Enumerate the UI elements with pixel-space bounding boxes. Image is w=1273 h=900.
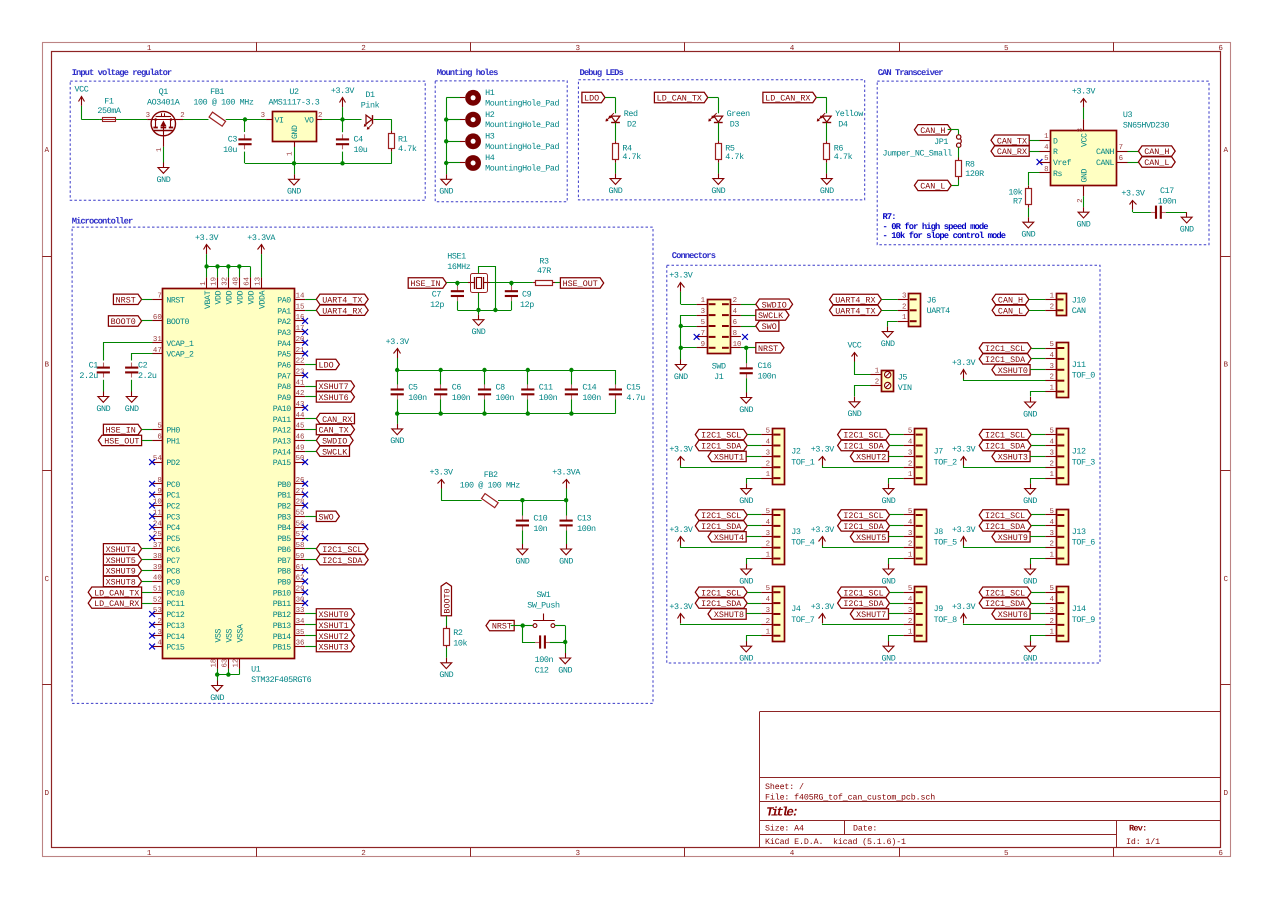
svg-text:3: 3 bbox=[908, 530, 912, 538]
svg-text:GND: GND bbox=[210, 693, 224, 703]
svg-text:SW1: SW1 bbox=[537, 590, 551, 600]
pin 34 PB13 bbox=[273, 618, 305, 631]
svg-text:F1: F1 bbox=[104, 97, 114, 107]
label I2C1_SCL bbox=[838, 510, 890, 521]
label SWO bbox=[316, 511, 339, 522]
svg-text:5: 5 bbox=[908, 508, 912, 516]
svg-text:Id: 1/1: Id: 1/1 bbox=[1126, 837, 1160, 847]
label CAN_L bbox=[992, 305, 1029, 316]
svg-text:+3.3V: +3.3V bbox=[669, 271, 693, 281]
svg-text:J13: J13 bbox=[1072, 527, 1086, 537]
pin 22 PA6 bbox=[277, 358, 305, 371]
svg-text:1: 1 bbox=[1049, 385, 1054, 393]
svg-text:TOF_6: TOF_6 bbox=[1072, 538, 1096, 548]
svg-text:J4: J4 bbox=[791, 604, 801, 614]
svg-text:PC6: PC6 bbox=[166, 546, 180, 555]
label HSE_OUT bbox=[560, 278, 603, 289]
wire bbox=[244, 120, 246, 133]
svg-text:VSSA: VSSA bbox=[237, 624, 246, 643]
svg-text:1: 1 bbox=[902, 314, 907, 322]
svg-text:GND: GND bbox=[287, 187, 301, 197]
wire bbox=[1029, 151, 1039, 153]
svg-text:LD_CAN_TX: LD_CAN_TX bbox=[657, 94, 702, 104]
pin 43 PA10 bbox=[273, 401, 305, 414]
label HSE_IN bbox=[103, 424, 141, 435]
svg-text:2: 2 bbox=[875, 379, 879, 387]
label HSE_OUT bbox=[98, 435, 141, 446]
svg-text:PB7: PB7 bbox=[277, 557, 291, 566]
svg-text:U2: U2 bbox=[289, 87, 299, 97]
svg-text:Microcontoller: Microcontoller bbox=[72, 216, 133, 226]
label I2C1_SDA bbox=[979, 598, 1031, 609]
svg-text:+3.3V: +3.3V bbox=[952, 358, 976, 368]
label I2C1_SDA bbox=[838, 521, 890, 532]
junction bbox=[340, 161, 344, 165]
wire bbox=[142, 440, 152, 442]
mounting hole H1 bbox=[460, 88, 559, 108]
ground bbox=[515, 544, 529, 566]
label BOOT0 bbox=[108, 316, 141, 327]
capacitor C9 bbox=[505, 283, 534, 310]
svg-text:4: 4 bbox=[908, 439, 913, 447]
label HSE_IN bbox=[408, 278, 446, 289]
svg-text:48: 48 bbox=[233, 277, 241, 286]
label UART4_TX bbox=[830, 305, 882, 316]
svg-text:10k: 10k bbox=[453, 638, 467, 648]
wire bbox=[747, 514, 761, 516]
wire bbox=[81, 106, 83, 120]
svg-text:3: 3 bbox=[766, 607, 770, 615]
wire bbox=[305, 516, 316, 518]
label XSHUT3 bbox=[316, 641, 354, 652]
wire bbox=[305, 451, 316, 453]
wire bbox=[555, 282, 560, 284]
svg-text:PC7: PC7 bbox=[166, 557, 180, 566]
wire bbox=[305, 559, 316, 561]
svg-text:22: 22 bbox=[296, 358, 305, 366]
wire bbox=[741, 347, 756, 349]
wire bbox=[1030, 456, 1045, 458]
no-connect PC5 bbox=[149, 535, 155, 541]
svg-text:PA15: PA15 bbox=[273, 459, 292, 468]
svg-text:PC2: PC2 bbox=[166, 503, 180, 512]
ground bbox=[156, 163, 170, 185]
svg-text:I2C1_SDA: I2C1_SDA bbox=[985, 599, 1026, 609]
label CAN_RX bbox=[316, 413, 354, 424]
svg-text:1: 1 bbox=[1049, 471, 1054, 479]
svg-text:8: 8 bbox=[157, 477, 161, 485]
wire bbox=[747, 434, 761, 436]
svg-text:+3.3VA: +3.3VA bbox=[552, 467, 581, 477]
svg-text:2: 2 bbox=[361, 44, 366, 53]
title block bbox=[760, 712, 1222, 848]
svg-text:5: 5 bbox=[766, 428, 770, 436]
svg-text:CANH: CANH bbox=[1096, 148, 1115, 157]
svg-text:NRST: NRST bbox=[492, 622, 512, 632]
resistor R4 bbox=[613, 141, 642, 163]
svg-text:64: 64 bbox=[243, 276, 251, 285]
svg-text:H1: H1 bbox=[485, 88, 495, 98]
mounting hole H2 bbox=[460, 110, 559, 130]
svg-text:XSHUT7: XSHUT7 bbox=[856, 610, 886, 620]
svg-text:PB1: PB1 bbox=[277, 492, 291, 501]
no-connect PB9 bbox=[302, 579, 308, 585]
connector J2 bbox=[761, 428, 815, 485]
svg-text:VDD: VDD bbox=[215, 290, 224, 304]
wire bbox=[708, 97, 719, 99]
no-connect PC2 bbox=[149, 503, 155, 509]
svg-text:5: 5 bbox=[1004, 850, 1009, 858]
svg-text:2: 2 bbox=[361, 849, 366, 858]
no-connect PC14 bbox=[149, 633, 155, 639]
svg-text:PB15: PB15 bbox=[273, 644, 292, 653]
wire bbox=[747, 559, 762, 565]
svg-text:J10: J10 bbox=[1072, 295, 1086, 305]
svg-text:2: 2 bbox=[1049, 460, 1053, 468]
svg-text:I2C1_SDA: I2C1_SDA bbox=[985, 355, 1026, 365]
wire bbox=[1030, 369, 1045, 371]
svg-text:1: 1 bbox=[908, 471, 913, 479]
power +3.3V bbox=[952, 358, 976, 379]
svg-text:SWDIO: SWDIO bbox=[322, 437, 347, 447]
capacitor C6 bbox=[434, 370, 470, 414]
svg-text:J5: J5 bbox=[898, 373, 908, 383]
svg-text:XSHUT8: XSHUT8 bbox=[106, 578, 136, 588]
svg-text:3: 3 bbox=[1049, 449, 1053, 457]
label BOOT0 bbox=[441, 583, 452, 616]
capacitor C12 bbox=[535, 635, 554, 675]
svg-text:4: 4 bbox=[766, 439, 771, 447]
power +3.3V bbox=[669, 525, 693, 546]
svg-text:2: 2 bbox=[766, 618, 770, 626]
pin 21 PA5 bbox=[277, 347, 305, 360]
pin 37 PC6 bbox=[152, 542, 180, 555]
svg-text:+3.3V: +3.3V bbox=[669, 525, 693, 535]
svg-text:100n: 100n bbox=[452, 393, 471, 403]
svg-text:100n: 100n bbox=[1158, 197, 1177, 207]
wire bbox=[566, 531, 568, 545]
label XSHUT0 bbox=[992, 365, 1030, 376]
svg-text:Q1: Q1 bbox=[159, 87, 169, 97]
resistor R8 bbox=[956, 158, 985, 180]
pin 61 PB8 bbox=[277, 564, 305, 577]
svg-text:2: 2 bbox=[908, 618, 912, 626]
svg-text:3: 3 bbox=[766, 449, 770, 457]
svg-text:I2C1_SCL: I2C1_SCL bbox=[701, 588, 741, 598]
svg-text:3: 3 bbox=[576, 44, 581, 53]
label I2C1_SDA bbox=[695, 598, 747, 609]
svg-text:3: 3 bbox=[1049, 363, 1053, 371]
svg-text:3: 3 bbox=[157, 629, 161, 637]
svg-text:C1: C1 bbox=[89, 360, 99, 370]
svg-text:1: 1 bbox=[766, 552, 771, 560]
wire bbox=[305, 299, 316, 301]
no-connect PC1 bbox=[149, 492, 155, 498]
svg-text:13: 13 bbox=[254, 277, 262, 286]
svg-text:40: 40 bbox=[153, 575, 162, 583]
svg-text:+3.3V: +3.3V bbox=[430, 467, 454, 477]
capacitor C11 bbox=[521, 370, 557, 414]
svg-text:6: 6 bbox=[1218, 44, 1223, 53]
svg-text:GND: GND bbox=[1081, 168, 1090, 182]
wire bbox=[305, 624, 316, 626]
wire bbox=[1031, 358, 1045, 360]
wire bbox=[747, 525, 761, 527]
svg-text:PB11: PB11 bbox=[273, 600, 292, 609]
no-connect Vref bbox=[1037, 159, 1043, 165]
no-connect PC12 bbox=[149, 611, 155, 617]
svg-text:PC14: PC14 bbox=[166, 633, 185, 642]
capacitor C8 bbox=[478, 370, 514, 414]
pin 19 VDD bbox=[211, 277, 224, 305]
pin 64 VDD bbox=[243, 276, 256, 304]
svg-text:C: C bbox=[1224, 575, 1229, 584]
power +3.3VA bbox=[552, 467, 581, 488]
svg-text:H4: H4 bbox=[485, 153, 495, 163]
svg-text:B: B bbox=[1224, 362, 1229, 370]
svg-text:Red: Red bbox=[624, 109, 638, 119]
junction bbox=[744, 346, 748, 350]
svg-text:AO3401A: AO3401A bbox=[147, 98, 181, 108]
wire bbox=[890, 445, 904, 447]
svg-text:UART4_RX: UART4_RX bbox=[322, 306, 362, 316]
svg-text:J7: J7 bbox=[934, 446, 944, 456]
svg-text:PB10: PB10 bbox=[273, 589, 292, 598]
svg-text:+3.3V: +3.3V bbox=[952, 444, 976, 454]
svg-text:PC0: PC0 bbox=[166, 481, 180, 490]
svg-text:100n: 100n bbox=[408, 393, 427, 403]
svg-text:PB4: PB4 bbox=[277, 524, 291, 533]
svg-text:D3: D3 bbox=[730, 120, 740, 130]
wire bbox=[890, 514, 904, 516]
svg-text:PB6: PB6 bbox=[277, 546, 291, 555]
svg-text:I2C1_SCL: I2C1_SCL bbox=[843, 431, 883, 441]
svg-text:UART4_TX: UART4_TX bbox=[322, 295, 362, 305]
wire bbox=[131, 380, 133, 392]
svg-text:C7: C7 bbox=[432, 290, 442, 300]
wire bbox=[1031, 592, 1045, 594]
wire bbox=[305, 613, 316, 615]
pin 40 PC9 bbox=[152, 575, 180, 588]
svg-text:VO: VO bbox=[304, 117, 314, 126]
svg-text:5: 5 bbox=[766, 585, 770, 593]
svg-text:XSHUT4: XSHUT4 bbox=[106, 545, 136, 555]
svg-text:SWO: SWO bbox=[319, 512, 334, 522]
svg-text:CAN_RX: CAN_RX bbox=[997, 147, 1027, 157]
wire bbox=[890, 434, 904, 436]
svg-text:10n: 10n bbox=[533, 524, 547, 534]
ground bbox=[882, 564, 896, 586]
wire bbox=[681, 546, 762, 548]
svg-text:+3.3V: +3.3V bbox=[195, 233, 219, 243]
pin 10 PC2 bbox=[152, 499, 180, 512]
svg-text:15: 15 bbox=[296, 303, 305, 311]
svg-text:BOOT0: BOOT0 bbox=[166, 318, 189, 327]
pin 59 PB7 bbox=[277, 553, 305, 566]
svg-text:Debug LEDs: Debug LEDs bbox=[580, 68, 624, 78]
label XSHUT1 bbox=[316, 620, 354, 631]
svg-text:12p: 12p bbox=[430, 300, 444, 310]
power +3.3V bbox=[331, 86, 355, 107]
pin 14 PA0 bbox=[277, 293, 305, 306]
svg-text:D4: D4 bbox=[838, 120, 848, 130]
svg-text:D2: D2 bbox=[627, 120, 637, 130]
pin 62 PB9 bbox=[277, 575, 305, 588]
svg-text:+3.3V: +3.3V bbox=[811, 602, 835, 612]
svg-text:2: 2 bbox=[766, 541, 770, 549]
svg-text:46: 46 bbox=[296, 434, 305, 442]
wire bbox=[1031, 514, 1045, 516]
capacitor C13 bbox=[560, 500, 596, 534]
connector J4 bbox=[761, 585, 815, 641]
svg-text:R1: R1 bbox=[398, 135, 408, 145]
svg-text:STM32F405RGT6: STM32F405RGT6 bbox=[251, 675, 312, 685]
svg-text:2: 2 bbox=[318, 112, 322, 120]
label XSHUT2 bbox=[850, 451, 888, 462]
crystal HSE1 bbox=[447, 251, 489, 292]
no-connect PB0 bbox=[302, 481, 308, 487]
svg-text:C14: C14 bbox=[582, 383, 596, 393]
label XSHUT9 bbox=[103, 565, 141, 576]
pin 26 PB0 bbox=[277, 477, 305, 490]
svg-text:1: 1 bbox=[1049, 552, 1054, 560]
capacitor C7 bbox=[430, 283, 464, 310]
label XSHUT6 bbox=[316, 392, 354, 403]
no-connect PB4 bbox=[302, 524, 308, 530]
svg-text:J11: J11 bbox=[1072, 360, 1086, 370]
wire bbox=[391, 152, 393, 164]
svg-text:1: 1 bbox=[287, 151, 295, 156]
svg-text:I2C1_SDA: I2C1_SDA bbox=[985, 442, 1026, 452]
svg-text:C10: C10 bbox=[533, 514, 547, 524]
wire bbox=[855, 362, 871, 375]
svg-text:42: 42 bbox=[296, 390, 305, 398]
svg-text:GND: GND bbox=[881, 339, 895, 349]
ground bbox=[739, 641, 753, 663]
svg-text:NRST: NRST bbox=[166, 296, 185, 305]
svg-text:7: 7 bbox=[701, 330, 705, 338]
pin 39 PC8 bbox=[152, 564, 180, 577]
svg-text:PH1: PH1 bbox=[166, 438, 180, 447]
pin 18 VSS bbox=[210, 628, 223, 668]
label XSHUT1 bbox=[708, 451, 746, 462]
wire bbox=[142, 559, 153, 561]
ground bbox=[739, 484, 753, 506]
svg-text:5: 5 bbox=[1049, 585, 1053, 593]
label NRST bbox=[756, 343, 784, 354]
svg-text:PB9: PB9 bbox=[277, 579, 291, 588]
svg-text:7: 7 bbox=[157, 293, 161, 301]
wire bbox=[889, 456, 904, 458]
wire bbox=[746, 536, 761, 538]
no-connect PA15 bbox=[302, 459, 308, 465]
pin 23 PA7 bbox=[277, 368, 305, 381]
wire bbox=[964, 379, 1046, 381]
svg-text:PB8: PB8 bbox=[277, 568, 291, 577]
svg-text:4: 4 bbox=[1049, 439, 1054, 447]
svg-text:4: 4 bbox=[766, 519, 771, 527]
svg-text:GND: GND bbox=[472, 327, 486, 337]
svg-text:FB1: FB1 bbox=[210, 87, 224, 97]
wire bbox=[746, 613, 761, 615]
svg-text:I2C1_SDA: I2C1_SDA bbox=[843, 599, 884, 609]
svg-text:1: 1 bbox=[147, 850, 152, 858]
wire bbox=[890, 592, 904, 594]
svg-text:1: 1 bbox=[908, 552, 913, 560]
svg-text:J1: J1 bbox=[714, 372, 724, 382]
svg-text:4: 4 bbox=[790, 45, 795, 53]
label LD_CAN_RX bbox=[88, 598, 141, 609]
svg-text:3: 3 bbox=[1049, 607, 1053, 615]
wire bbox=[747, 603, 761, 605]
label SWDIO bbox=[316, 435, 353, 446]
svg-text:GND: GND bbox=[1077, 220, 1091, 230]
svg-text:D: D bbox=[1053, 137, 1058, 146]
svg-text:U1: U1 bbox=[251, 664, 261, 674]
svg-text:J6: J6 bbox=[927, 295, 937, 305]
svg-text:VSS: VSS bbox=[214, 628, 223, 642]
svg-text:44: 44 bbox=[296, 412, 305, 420]
wire bbox=[746, 378, 748, 392]
pin 42 PA9 bbox=[277, 390, 305, 403]
ground bbox=[559, 544, 573, 566]
pin 15 PA1 bbox=[277, 303, 305, 316]
wire bbox=[889, 613, 904, 615]
wire bbox=[446, 282, 468, 284]
svg-text:XSHUT1: XSHUT1 bbox=[714, 453, 744, 463]
svg-text:1: 1 bbox=[156, 147, 164, 152]
junction bbox=[526, 368, 530, 372]
label SWCLK bbox=[756, 310, 789, 321]
pin 41 PA8 bbox=[277, 379, 305, 392]
wire bbox=[457, 301, 459, 310]
svg-text:XSHUT9: XSHUT9 bbox=[106, 567, 136, 577]
svg-text:GND: GND bbox=[390, 436, 404, 446]
label SWDIO bbox=[756, 299, 793, 310]
label XSHUT6 bbox=[992, 609, 1030, 620]
capacitor C5 bbox=[391, 370, 427, 414]
svg-text:GND: GND bbox=[96, 404, 110, 414]
label I2C1_SDA bbox=[979, 354, 1031, 365]
wire bbox=[175, 119, 183, 121]
svg-text:GND: GND bbox=[125, 404, 139, 414]
power +3.3V bbox=[952, 444, 976, 465]
label I2C1_SCL bbox=[695, 429, 747, 440]
label NRST bbox=[486, 620, 514, 631]
svg-text:CAN_TX: CAN_TX bbox=[997, 136, 1027, 146]
svg-text:KiCad E.D.A. kicad (5.1.6)-1: KiCad E.D.A. kicad (5.1.6)-1 bbox=[765, 837, 906, 847]
junction bbox=[520, 498, 524, 502]
connector J1 bbox=[697, 297, 742, 382]
wire bbox=[523, 626, 536, 643]
junction bbox=[340, 117, 344, 121]
capacitor C17 bbox=[1151, 186, 1177, 219]
svg-text:B: B bbox=[45, 362, 50, 370]
svg-text:36: 36 bbox=[296, 640, 305, 648]
wire bbox=[958, 180, 960, 186]
svg-text:PA14: PA14 bbox=[273, 448, 292, 457]
svg-text:47R: 47R bbox=[537, 266, 551, 276]
svg-text:HSE_IN: HSE_IN bbox=[410, 279, 440, 289]
svg-text:100n: 100n bbox=[535, 655, 554, 665]
label XSHUT8 bbox=[103, 576, 141, 587]
svg-text:TOF_4: TOF_4 bbox=[791, 538, 815, 548]
pin 9 PC1 bbox=[152, 488, 180, 501]
svg-text:Size: A4: Size: A4 bbox=[765, 823, 804, 833]
power +3.3V bbox=[952, 602, 976, 623]
wire gnd rail bbox=[681, 316, 697, 360]
pin 29 PB10 bbox=[273, 586, 305, 599]
